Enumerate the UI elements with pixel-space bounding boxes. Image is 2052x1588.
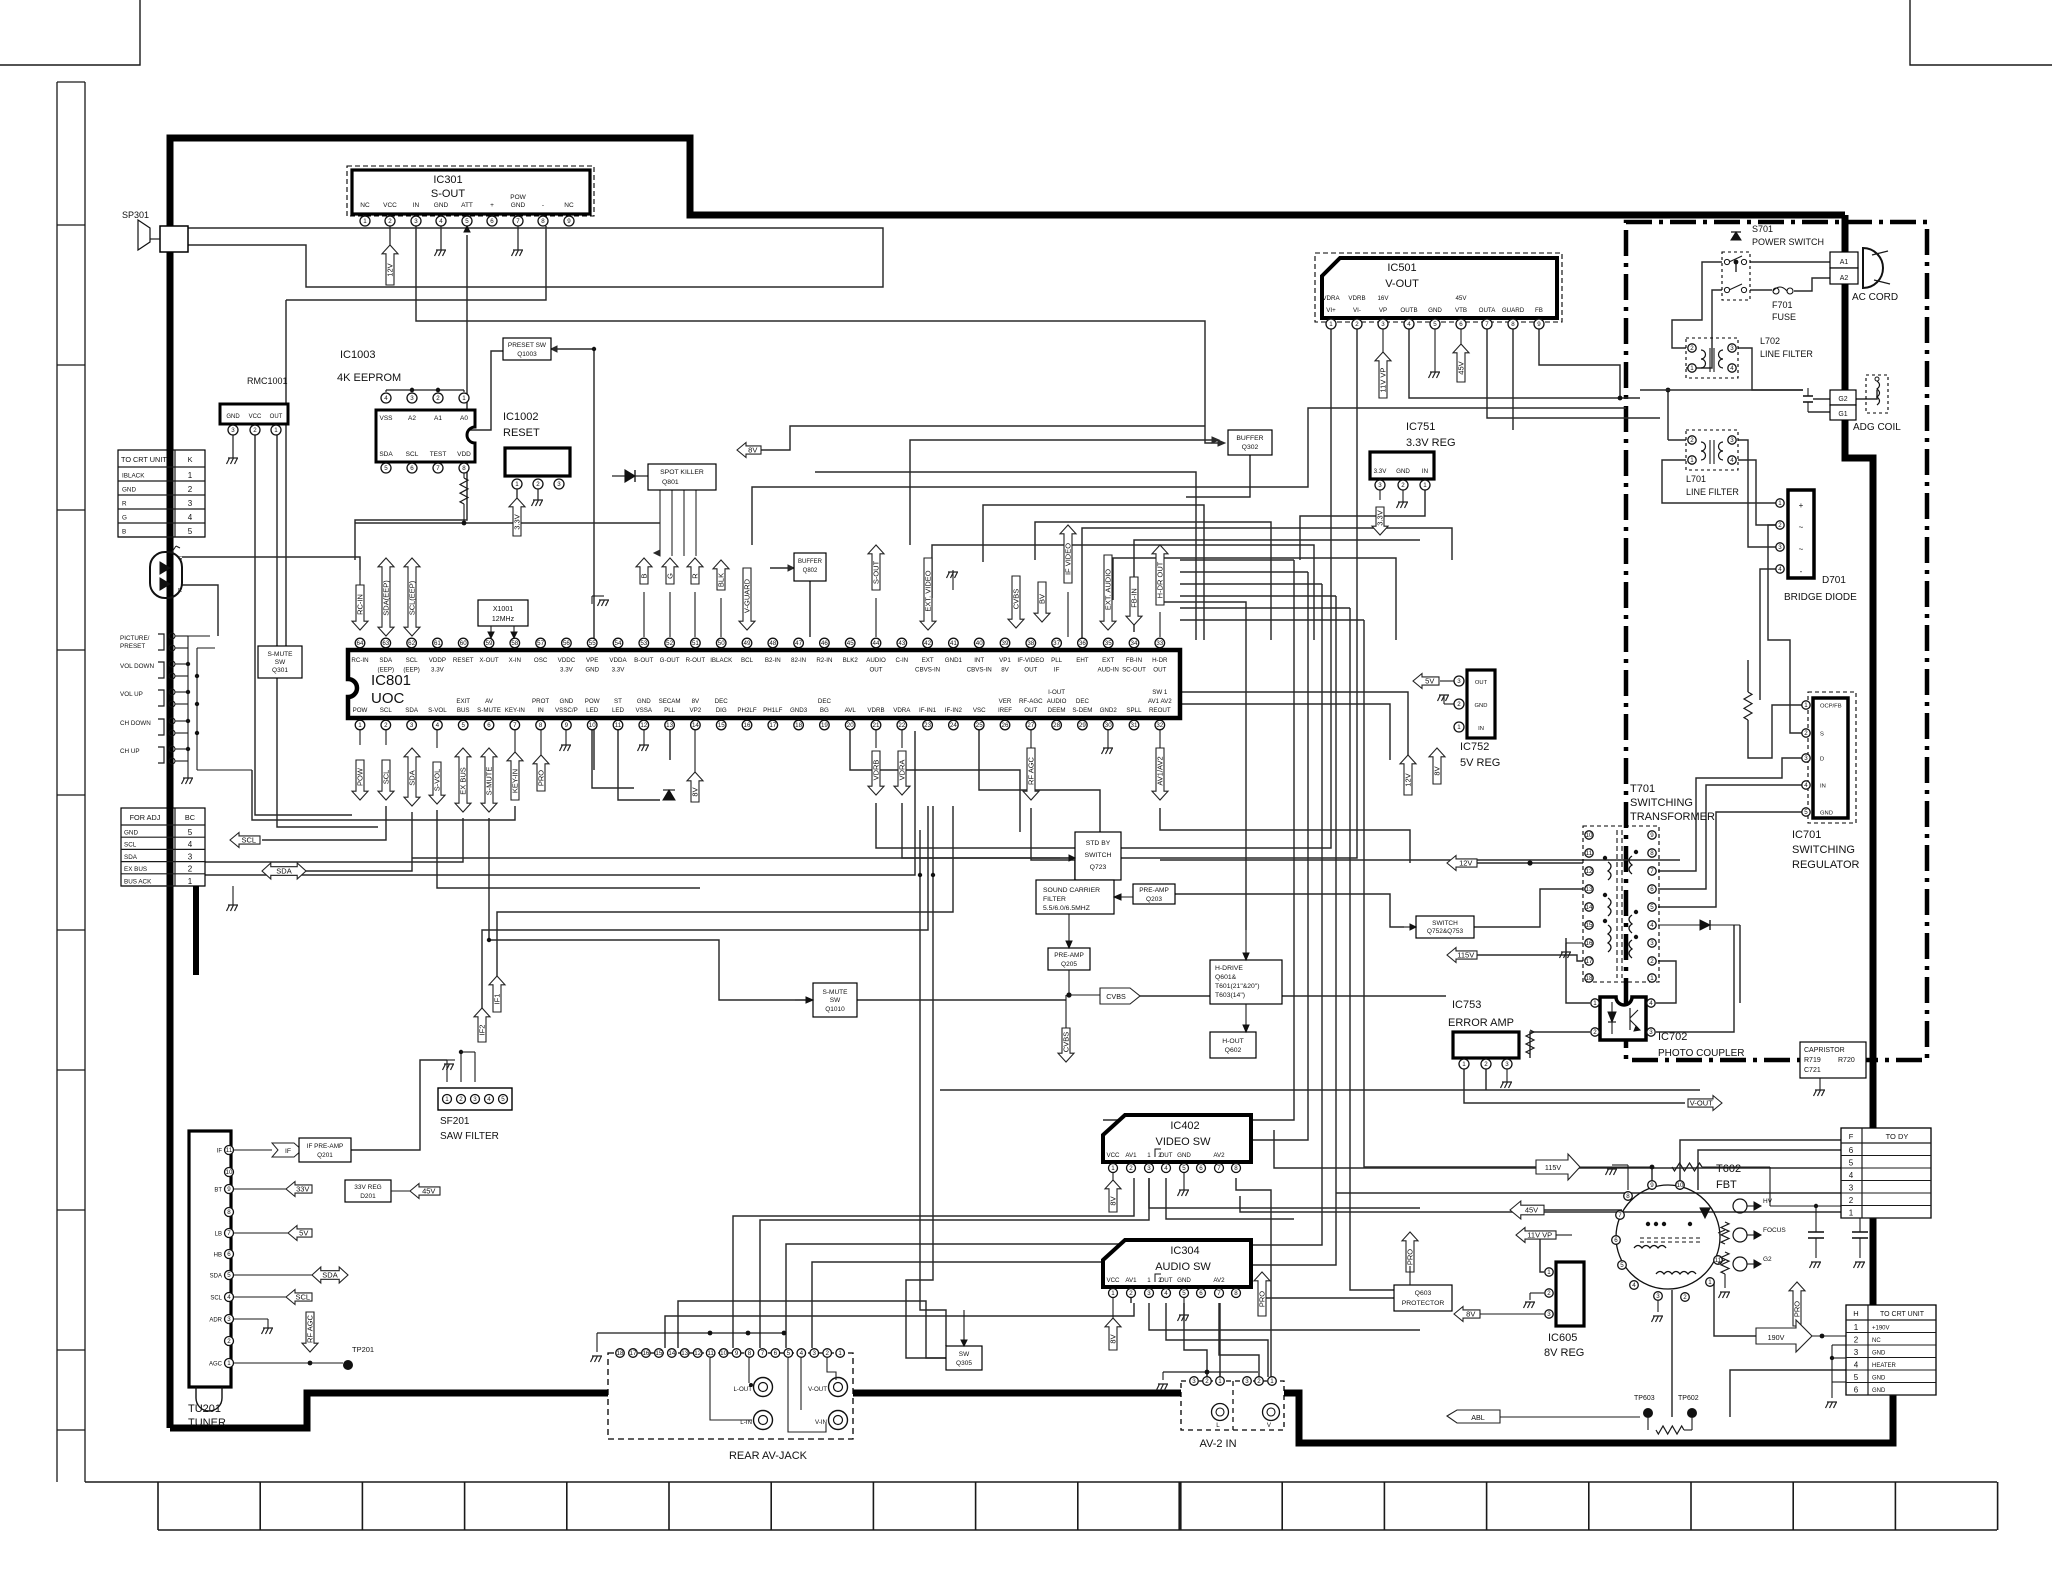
svg-text:B-OUT: B-OUT	[634, 657, 653, 664]
wire S-MUTE Q1010 out	[857, 999, 1066, 1001]
svg-text:FB: FB	[1535, 307, 1543, 314]
svg-text:PROTECTOR: PROTECTOR	[1402, 1300, 1445, 1307]
capacitors right of FBT	[1808, 1231, 1824, 1233]
svg-text:GND: GND	[1177, 1152, 1191, 1159]
svg-text:ABL: ABL	[1471, 1413, 1485, 1422]
svg-text:5V: 5V	[299, 1229, 308, 1238]
gnd at H connector	[1832, 1381, 1846, 1383]
IF pre-amp Q201 block	[299, 1138, 351, 1162]
svg-text:3.3V: 3.3V	[560, 667, 574, 674]
svg-text:VI-: VI-	[1353, 307, 1361, 314]
svg-text:IC301: IC301	[433, 174, 462, 186]
svg-text:D: D	[1820, 757, 1824, 763]
svg-text:EXT: EXT	[1102, 657, 1114, 664]
svg-text:2: 2	[227, 1338, 231, 1345]
wire jack riser to SW Q305	[678, 1301, 946, 1358]
V-OUT arrow into deflection	[1688, 1096, 1722, 1111]
svg-text:1: 1	[1708, 1279, 1712, 1286]
wire right bundle vertical 4	[1251, 596, 1336, 1265]
PRO arrow lower left	[1254, 1272, 1270, 1316]
svg-text:IREF: IREF	[998, 707, 1012, 714]
svg-text:57: 57	[537, 640, 544, 647]
svg-text:9: 9	[565, 722, 569, 729]
wire switch box to T701 pin13	[1474, 889, 1583, 927]
svg-text:IF-IN1: IF-IN1	[919, 707, 937, 714]
svg-text:46: 46	[821, 640, 828, 647]
svg-text:3: 3	[1378, 482, 1382, 489]
wire right bundle vertical 1	[1103, 560, 1294, 1120]
svg-text:SCL: SCL	[380, 707, 393, 714]
wire preset switch left leg	[412, 351, 503, 430]
svg-text:V-OUT: V-OUT	[1690, 1099, 1713, 1108]
svg-text:Q802: Q802	[803, 568, 818, 574]
pre-amp Q205 block	[1048, 948, 1090, 970]
svg-text:VTB: VTB	[1455, 307, 1467, 314]
arrow BV pin39	[1034, 582, 1050, 622]
svg-text:BC: BC	[185, 813, 195, 822]
tuner TU201	[189, 1131, 231, 1387]
gnd pin12 below	[643, 730, 645, 745]
preset switch Q1003	[503, 338, 551, 360]
svg-text:V-OUT: V-OUT	[1385, 278, 1419, 290]
svg-text:L701: L701	[1686, 474, 1706, 484]
svg-text:1: 1	[1218, 1378, 1222, 1385]
wire FB-IN riser	[1134, 540, 1420, 632]
svg-text:S-VOL: S-VOL	[433, 769, 442, 792]
svg-text:S-MUTE: S-MUTE	[823, 989, 849, 996]
svg-text:11: 11	[226, 1147, 233, 1154]
svg-text:CBVS-IN: CBVS-IN	[967, 667, 992, 674]
svg-text:8: 8	[1234, 1290, 1238, 1297]
wire degauss to G2G1	[1813, 398, 1830, 400]
connector table H TO CRT UNIT	[1846, 1305, 1936, 1395]
IC301 pins 1-9	[360, 216, 370, 226]
8V arrow below IC304 pin1	[1112, 1298, 1114, 1318]
wire IC501 pin4 OUTB down	[1409, 329, 1640, 398]
svg-text:7: 7	[1217, 1290, 1221, 1297]
wire right bundle vertical 5	[1350, 608, 1452, 1290]
arrow S-MUTE pin6 below	[481, 748, 497, 812]
arrow V-GUARD pin49	[739, 568, 755, 630]
CVBS arrow down	[1058, 1028, 1074, 1062]
3.3V arrow at IC1002 pin1	[516, 489, 518, 498]
svg-text:VCC: VCC	[1106, 1277, 1120, 1284]
svg-text:G: G	[178, 556, 182, 562]
svg-text:~: ~	[1799, 523, 1804, 532]
svg-text:3.3V: 3.3V	[612, 667, 626, 674]
wire F table row5 left	[1274, 1130, 1841, 1168]
line filter L702	[1686, 338, 1738, 378]
svg-text:S-VOL: S-VOL	[428, 707, 447, 714]
svg-text:6: 6	[1459, 321, 1463, 328]
svg-text:R720: R720	[1838, 1057, 1855, 1064]
svg-text:5.5/6.0/6.5MHZ: 5.5/6.0/6.5MHZ	[1043, 905, 1090, 912]
wire RMC pin2 bus	[255, 435, 352, 815]
rear AV jack panel	[608, 1353, 853, 1439]
photo coupler IC702	[1600, 997, 1646, 1040]
switching regulator IC701	[1808, 692, 1856, 823]
3.3V arrow below IC751	[1379, 490, 1381, 500]
wire caps on secondary	[1739, 1003, 1741, 1042]
svg-text:UOC: UOC	[371, 690, 405, 707]
IC801 bottom pin row (pins 1-32)	[355, 720, 365, 730]
svg-text:3: 3	[414, 218, 418, 225]
svg-text:LED: LED	[586, 707, 599, 714]
svg-text:5: 5	[384, 465, 388, 472]
8V arrow (left of IC752)	[1429, 748, 1445, 784]
svg-text:X-IN: X-IN	[509, 657, 521, 664]
arrow PRO pin8 below	[533, 755, 549, 791]
wire RMC pin1 bus	[277, 435, 378, 827]
svg-text:63: 63	[382, 640, 389, 647]
svg-text:45V: 45V	[1457, 361, 1466, 374]
svg-text:15: 15	[655, 1350, 662, 1357]
svg-text:2: 2	[1683, 1294, 1687, 1301]
arrow IF VIDEO pin38	[1060, 525, 1076, 583]
svg-text:HV: HV	[1763, 1198, 1773, 1205]
svg-text:1: 1	[358, 722, 362, 729]
svg-text:3.3V REG: 3.3V REG	[1406, 437, 1456, 449]
svg-text:4K EEPROM: 4K EEPROM	[337, 372, 401, 384]
wire FBT pin9 risers	[1651, 1167, 1653, 1190]
5V regulator IC752	[1467, 670, 1495, 738]
svg-text:17: 17	[769, 722, 776, 729]
gnd at IC605 pin2	[1530, 1292, 1544, 1294]
svg-text:AV1: AV1	[1125, 1152, 1137, 1159]
svg-text:4: 4	[188, 513, 193, 522]
svg-text:A2: A2	[1840, 275, 1849, 282]
svg-text:1: 1	[1457, 724, 1461, 731]
svg-text:G: G	[666, 573, 675, 579]
gnd below IC402 pin5	[1183, 1173, 1185, 1190]
svg-text:7: 7	[761, 1350, 765, 1357]
wire long bottom run from AV1/AV2	[1160, 859, 1680, 861]
svg-text:A1: A1	[434, 415, 442, 422]
svg-text:IF2: IF2	[478, 1025, 487, 1036]
page corner mark top-right	[1910, 0, 2052, 65]
T701 primary windings	[1608, 862, 1611, 952]
svg-text:G2: G2	[1838, 396, 1847, 403]
wire IC501 pin8 guard	[1512, 329, 1514, 430]
degauss terminals G2 G1	[1830, 390, 1856, 405]
T701 secondary windings	[1629, 856, 1632, 958]
wire FBT pin1 to 190V	[1710, 1287, 1756, 1336]
svg-text:SECAM: SECAM	[659, 698, 681, 705]
svg-text:S-MUTE: S-MUTE	[485, 767, 494, 796]
svg-text:30: 30	[1105, 722, 1112, 729]
svg-text:SCL: SCL	[406, 657, 419, 664]
svg-text:7: 7	[1618, 1212, 1622, 1219]
svg-text:Q752&Q753: Q752&Q753	[1427, 928, 1464, 935]
gnd at T701 pin16	[1566, 942, 1583, 944]
svg-text:BUFFER: BUFFER	[798, 559, 823, 565]
svg-text:SP301: SP301	[122, 210, 149, 220]
wire V-GUARD riser	[747, 500, 893, 560]
svg-text:VER: VER	[999, 698, 1012, 705]
svg-text:C-IN: C-IN	[895, 657, 908, 664]
svg-text:1: 1	[1593, 1000, 1597, 1007]
svg-text:2: 2	[188, 485, 193, 494]
svg-text:KEY-IN: KEY-IN	[505, 707, 525, 714]
svg-text:GND: GND	[1872, 1376, 1886, 1382]
arrow CVBS pin40	[1008, 576, 1024, 628]
buffer Q302 block	[1228, 430, 1272, 455]
gnd at IC753 pin3	[1506, 1069, 1508, 1082]
left margin zone strip	[56, 82, 58, 1482]
SAW filter SF201	[438, 1088, 512, 1110]
vertical output IC501 block	[1315, 253, 1562, 322]
ABL arrow	[1447, 1410, 1500, 1423]
svg-text:14: 14	[692, 722, 699, 729]
ground stub near pin55	[591, 596, 593, 604]
IC1003 bottom pins 5-8	[381, 463, 391, 473]
connector table F TO DY	[1841, 1128, 1931, 1218]
wire IC501 pin7 OUTA down	[1487, 329, 1660, 418]
arrow SDA pin3 below	[404, 748, 420, 806]
svg-text:1: 1	[1804, 702, 1808, 709]
wire band above IC801 run6	[932, 545, 1314, 640]
svg-text:S-OUT: S-OUT	[872, 560, 881, 584]
svg-text:11: 11	[615, 722, 622, 729]
arrow B pin53	[636, 558, 652, 584]
svg-text:BLK: BLK	[717, 573, 726, 587]
svg-text:64: 64	[357, 640, 364, 647]
wire bridge plus trunk	[1751, 390, 1753, 440]
svg-text:K: K	[188, 455, 193, 464]
svg-text:R-OUT: R-OUT	[686, 657, 706, 664]
svg-text:5: 5	[501, 1096, 505, 1103]
svg-text:DEEM: DEEM	[1048, 707, 1066, 714]
wire rect diode to caps	[1739, 925, 1741, 1003]
wire remote sensor lower leg	[182, 585, 218, 636]
spot killer diode	[625, 470, 635, 482]
svg-text:1: 1	[1329, 321, 1333, 328]
svg-text:2: 2	[1158, 1152, 1162, 1159]
190V arrow to CRT	[1756, 1320, 1812, 1352]
svg-text:2: 2	[1804, 730, 1808, 737]
svg-text:EHT: EHT	[1076, 657, 1089, 664]
svg-text:8V: 8V	[692, 698, 700, 705]
8V arrow from IC605	[1454, 1307, 1480, 1322]
wire 45V arrow line from T602	[1544, 1190, 1640, 1210]
svg-text:22: 22	[898, 722, 905, 729]
svg-text:1: 1	[1462, 1061, 1466, 1068]
resistor at IC701 OCP	[1744, 692, 1752, 720]
svg-text:12: 12	[694, 1350, 701, 1357]
protector Q603 block	[1394, 1285, 1452, 1311]
gnd near T602 pin8	[1627, 1165, 1629, 1190]
svg-text:RMC1001: RMC1001	[247, 376, 288, 386]
svg-text:TRANSFORMER: TRANSFORMER	[1630, 811, 1715, 823]
wire Q203 to switch Q752	[1175, 894, 1404, 927]
svg-text:3: 3	[188, 499, 193, 508]
svg-text:S-MUTE: S-MUTE	[268, 651, 294, 658]
svg-text:VIDEO SW: VIDEO SW	[1155, 1136, 1211, 1148]
svg-text:6: 6	[1199, 1290, 1203, 1297]
H-OUT Q602 block	[1210, 1032, 1256, 1058]
svg-text:28: 28	[1053, 722, 1060, 729]
svg-text:31: 31	[1131, 722, 1138, 729]
svg-text:4: 4	[1632, 1282, 1636, 1289]
svg-text:VDRB: VDRB	[1348, 295, 1365, 302]
gnd at T602 pin3	[1657, 1301, 1659, 1312]
wire jack pin5 to IC304	[786, 1244, 1131, 1348]
focus/screen potentiometers	[1721, 1222, 1729, 1244]
bold stub below FOR ADJ table	[193, 886, 199, 975]
svg-text:44: 44	[873, 640, 880, 647]
svg-text:4: 4	[487, 1096, 491, 1103]
RCA jack V-OUT	[829, 1378, 848, 1397]
wire VDRB to IC501 pin1	[876, 329, 1331, 848]
svg-text:ST: ST	[614, 698, 622, 705]
svg-text:GND2: GND2	[1100, 707, 1118, 714]
svg-text:42: 42	[924, 640, 931, 647]
svg-text:RC-IN: RC-IN	[351, 657, 368, 664]
wire speaker loop to IC301	[188, 228, 883, 287]
wire H-DR OUT to H-DRIVE	[1160, 602, 1246, 930]
svg-text:ADG COIL: ADG COIL	[1853, 422, 1901, 433]
svg-text:12V: 12V	[386, 263, 395, 276]
wire BUS ACK row long	[205, 731, 915, 875]
svg-text:R: R	[178, 588, 182, 594]
svg-text:12V: 12V	[1404, 773, 1413, 786]
svg-text:VCC: VCC	[1106, 1152, 1120, 1159]
svg-text:G1: G1	[1838, 411, 1847, 418]
svg-text:D701: D701	[1822, 575, 1846, 586]
svg-text:VDRA: VDRA	[1322, 295, 1340, 302]
svg-text:10: 10	[226, 1169, 233, 1176]
svg-text:PRO: PRO	[537, 770, 546, 786]
wire IF-IN2 from SAW filter	[482, 806, 928, 1008]
wire S-MUTE pin6 to Q1010	[489, 818, 806, 1000]
svg-text:+: +	[1799, 501, 1804, 510]
gnd below IC304 pin5	[1183, 1298, 1185, 1315]
arrow G pin52	[662, 558, 678, 584]
svg-text:1: 1	[274, 427, 278, 434]
flyback transformer T602 body	[1616, 1185, 1720, 1289]
svg-text:D201: D201	[360, 1193, 376, 1200]
svg-text:61: 61	[434, 640, 441, 647]
svg-text:33V: 33V	[296, 1185, 309, 1194]
svg-text:VDRB: VDRB	[867, 707, 884, 714]
PRO arrow right	[1789, 1282, 1805, 1326]
svg-text:AC CORD: AC CORD	[1852, 292, 1898, 303]
svg-text:5: 5	[188, 828, 193, 837]
wire band above IC801 run2	[815, 472, 1196, 640]
svg-text:5: 5	[787, 1350, 791, 1357]
gnd at IC752 pin2	[1444, 703, 1454, 705]
wire L701 wiring	[1639, 390, 1641, 398]
wire buffer Q802 legs	[809, 581, 811, 637]
svg-text:33V REG: 33V REG	[354, 1184, 381, 1191]
svg-text:IN: IN	[1478, 726, 1484, 732]
svg-text:2: 2	[1593, 1029, 1597, 1036]
svg-text:IC402: IC402	[1170, 1120, 1199, 1132]
svg-text:3: 3	[1505, 1061, 1509, 1068]
svg-text:OUT: OUT	[1475, 680, 1488, 686]
svg-text:A2: A2	[408, 415, 416, 422]
capristor block R719 R720 C721	[1800, 1042, 1866, 1078]
AV-2 V jack	[1263, 1404, 1280, 1421]
svg-text:BUS: BUS	[457, 707, 470, 714]
wire SDA bus to pin3	[306, 812, 412, 871]
svg-text:Q1010: Q1010	[825, 1006, 845, 1013]
wire 3.3V reg input	[1294, 490, 1425, 520]
svg-text:CVBS: CVBS	[1062, 1032, 1071, 1052]
wire left trunk to S-MUTE Q301	[258, 300, 286, 660]
ground at IC301 pin4	[440, 226, 442, 250]
svg-text:GND: GND	[1872, 1388, 1886, 1394]
wire IC402 pin4 run right	[1166, 1178, 1294, 1219]
wire IC605 pin1 to FBT	[1496, 1234, 1512, 1236]
FOCUS terminal	[1733, 1228, 1747, 1242]
svg-text:SPOT KILLER: SPOT KILLER	[660, 469, 704, 476]
svg-text:IF-IN2: IF-IN2	[945, 707, 963, 714]
svg-text:H-DRIVE: H-DRIVE	[1215, 965, 1243, 972]
svg-text:3: 3	[813, 1350, 817, 1357]
svg-text:INT: INT	[974, 657, 984, 664]
IC752 pins	[1454, 676, 1464, 686]
svg-text:1: 1	[1778, 500, 1782, 507]
svg-text:1: 1	[445, 1096, 449, 1103]
gnd pin9 below	[565, 730, 567, 745]
IF2 arrow above SAW filter	[474, 1008, 490, 1042]
svg-text:8: 8	[541, 218, 545, 225]
svg-text:43: 43	[898, 640, 905, 647]
svg-text:SW 1: SW 1	[1152, 689, 1168, 696]
svg-text:OUT: OUT	[270, 414, 283, 420]
wire Q603 protector left	[1262, 1298, 1394, 1316]
svg-text:H: H	[1853, 1309, 1858, 1318]
svg-text:VDDC: VDDC	[558, 657, 576, 664]
svg-text:EXT. AUDIO: EXT. AUDIO	[1104, 569, 1113, 610]
svg-text:OUT: OUT	[1024, 707, 1037, 714]
svg-text:PRO: PRO	[1258, 1291, 1267, 1307]
arrow EX BUS pin5 below	[455, 748, 471, 812]
wire photocoupler pin3 right	[1656, 961, 1700, 1032]
svg-text:2: 2	[1129, 1165, 1133, 1172]
svg-text:IC702: IC702	[1658, 1031, 1687, 1043]
svg-text:I-OUT: I-OUT	[1048, 689, 1065, 696]
AC plug terminals A1 A2	[1830, 252, 1858, 268]
svg-text:82-IN: 82-IN	[791, 657, 806, 664]
svg-text:4: 4	[1650, 922, 1654, 929]
svg-text:8: 8	[1626, 1193, 1630, 1200]
svg-text:48: 48	[769, 640, 776, 647]
svg-text:IC801: IC801	[371, 672, 411, 689]
svg-text:SCL: SCL	[295, 1293, 310, 1302]
svg-text:6: 6	[1650, 886, 1654, 893]
svg-text:1: 1	[188, 471, 193, 480]
svg-text:9: 9	[735, 1350, 739, 1357]
svg-text:A1: A1	[1840, 259, 1849, 266]
svg-text:POW: POW	[356, 767, 365, 786]
svg-text:3: 3	[1730, 437, 1734, 444]
svg-text:AUDIO: AUDIO	[866, 657, 886, 664]
svg-text:Q723: Q723	[1090, 864, 1107, 871]
svg-text:R2-IN: R2-IN	[816, 657, 832, 664]
svg-text:PRO: PRO	[1793, 1301, 1802, 1317]
svg-text:GND: GND	[560, 698, 574, 705]
svg-text:8V: 8V	[691, 787, 700, 796]
svg-text:10: 10	[589, 722, 596, 729]
svg-text:PRE-AMP: PRE-AMP	[1139, 887, 1169, 894]
svg-text:3: 3	[1245, 1378, 1249, 1385]
ground at IC301 pin7	[517, 226, 519, 250]
svg-text:POW: POW	[510, 194, 526, 201]
svg-text:S-MUTE: S-MUTE	[477, 707, 501, 714]
wire IC801 pin25 riser	[979, 730, 1100, 832]
